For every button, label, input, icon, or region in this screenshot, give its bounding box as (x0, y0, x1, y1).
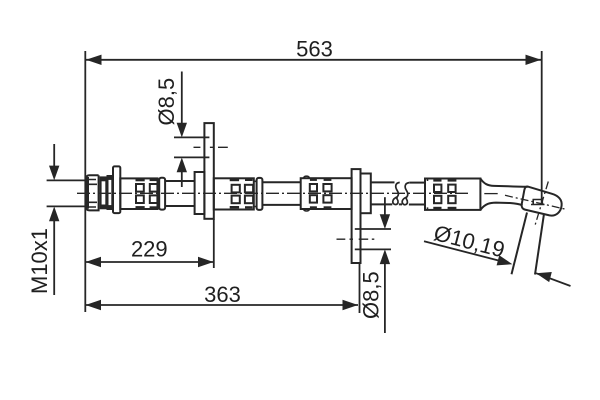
capacitor sleeve2 end collar (257, 178, 263, 210)
wire hose after break top (409, 182, 425, 184)
node M10x1 arrow down (53, 144, 55, 167)
node dia8.5 top dimension arrow down (181, 72, 183, 124)
op-amp bracket2 plate (352, 169, 361, 263)
svg-text:M10x1: M10x1 (27, 228, 52, 294)
node sleeve3 left bumps (304, 176, 310, 211)
diode sleeve1 windows (136, 184, 144, 192)
wire dimension line 363 (86, 304, 359, 306)
wire hose after break bottom (409, 204, 425, 206)
wire M10x1 leader bottom (47, 205, 86, 207)
wire centerline main hose axis (77, 192, 471, 194)
capacitor sleeve1 end collar (159, 178, 165, 210)
node arrow left 363 (86, 300, 102, 310)
node arrow right 229 (198, 257, 214, 267)
transistor left fitting washer section (108, 176, 113, 209)
wire hose to break bottom (371, 203, 402, 205)
node right extension line (541, 51, 543, 204)
op-amp bracket1 plate (204, 123, 213, 219)
resistor sleeve3 body (301, 178, 352, 209)
wire dia10,19 dimension line (424, 241, 499, 260)
wire hole centerline bracket2 (337, 238, 375, 240)
diode sleeve2 windows (232, 185, 240, 193)
node sleeve1 crimp tabs (136, 179, 145, 181)
diode sleeve4 windows (434, 185, 441, 192)
node sleeve1 notch (158, 181, 160, 206)
wire dia8.5 bottom line lower (355, 248, 391, 250)
wire tube axis centerline (535, 182, 549, 227)
svg-text:229: 229 (131, 237, 168, 262)
resistor sleeve2 body (214, 178, 254, 209)
node sleeve2 groove (254, 181, 257, 206)
wire dia8.5 top line lower (174, 156, 209, 158)
node sleeve2 crimp tabs (230, 179, 239, 181)
node left extension line (84, 51, 86, 312)
wire hole centerline bracket1 (194, 146, 228, 148)
node dia8.5 top arrow up (177, 158, 187, 173)
node dia10,19 arrow at tube right edge (536, 272, 552, 282)
diode sleeve3 windows (310, 184, 317, 191)
node sleeve4 left step (427, 179, 429, 210)
wire plain hose segment B top (262, 181, 300, 183)
transistor left fitting thread stub (86, 175, 98, 210)
svg-text:563: 563 (296, 36, 333, 61)
wire tube right edge (535, 214, 544, 275)
wire tube left edge (512, 213, 528, 275)
node end fitting inner hex lines (531, 200, 545, 205)
wire plain hose segment A bottom (165, 205, 195, 207)
transistor bracket2 boss (361, 174, 371, 214)
wire plain hose segment A top (165, 180, 195, 182)
wire hose to break top (371, 181, 395, 183)
node break squiggle 2 (402, 183, 409, 205)
transistor bracket1 boss (195, 172, 205, 214)
node arrow right 363 (343, 300, 359, 310)
wire dimension line 229 (86, 261, 214, 263)
node extension line plate1 (213, 219, 215, 268)
svg-text:Ø8,5: Ø8,5 (359, 271, 384, 319)
node sleeve3 crimp tabs (310, 179, 317, 181)
node arrow left 229 (86, 257, 102, 267)
node sleeve4 crimp tabs (433, 179, 441, 181)
transistor left fitting nut section (101, 177, 107, 208)
svg-text:Ø8,5: Ø8,5 (154, 78, 179, 126)
capacitor left fitting flange (113, 166, 120, 213)
op-amp right end fitting body (522, 187, 562, 216)
node break squiggle 1 (393, 182, 400, 204)
resistor sleeve4 body (425, 179, 480, 210)
wire plain hose segment B bottom (262, 204, 300, 206)
wire dia8.5 bottom line upper (355, 228, 391, 230)
wire centerline neck extension (484, 193, 497, 195)
resistor sleeve1 body (120, 178, 157, 209)
wire neck to end fitting bottom (480, 203, 522, 210)
node M10x1 arrow up (49, 207, 59, 222)
node arrow right 563 (526, 55, 542, 65)
wire end fitting long axis centerline (505, 195, 566, 209)
wire neck to end fitting top (480, 179, 527, 187)
node dia8.5 bottom arrow up (380, 249, 390, 264)
svg-text:Ø10,19: Ø10,19 (431, 220, 507, 262)
node dia8.5 bottom dimension arrow down (384, 197, 386, 214)
node arrow left 563 (86, 55, 102, 65)
wire dia8.5 top line upper (174, 136, 209, 138)
wire M10x1 leader top (47, 179, 86, 181)
svg-text:363: 363 (204, 282, 241, 307)
node dia10,19 arrow at tube left edge (497, 255, 513, 265)
wire dimension line 563 (86, 59, 541, 61)
node extension line plate2 (359, 263, 361, 313)
